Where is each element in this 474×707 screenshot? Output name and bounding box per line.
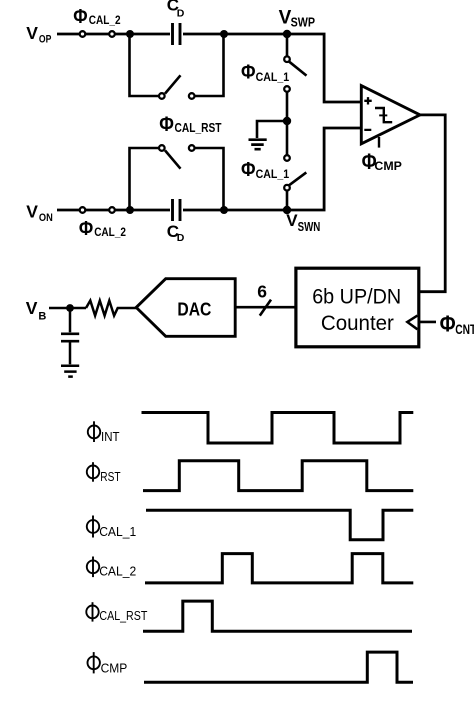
svg-text:CAL_1: CAL_1 (99, 524, 136, 539)
svg-text:V: V (26, 298, 38, 318)
svg-text:DAC: DAC (177, 298, 211, 319)
svg-text:CAL_1: CAL_1 (256, 167, 290, 181)
svg-text:V: V (286, 211, 298, 230)
svg-text:6: 6 (257, 282, 267, 302)
svg-text:SWP: SWP (291, 15, 316, 29)
svg-text:CAL_RST: CAL_RST (175, 121, 222, 135)
svg-text:V: V (26, 23, 38, 43)
svg-text:Φ: Φ (440, 311, 456, 337)
svg-text:Counter: Counter (321, 311, 394, 335)
svg-text:Φ: Φ (241, 158, 256, 181)
svg-text:ON: ON (39, 212, 53, 224)
svg-text:OP: OP (39, 34, 52, 46)
svg-text:6b UP/DN: 6b UP/DN (312, 285, 401, 309)
svg-text:CMP: CMP (374, 159, 402, 173)
svg-text:CAL_2: CAL_2 (99, 564, 136, 579)
svg-text:Φ: Φ (79, 217, 93, 240)
svg-text:SWN: SWN (298, 220, 321, 234)
svg-text:V: V (26, 202, 38, 222)
svg-text:CAL_1: CAL_1 (256, 70, 290, 84)
svg-text:D: D (177, 8, 185, 20)
svg-text:D: D (177, 232, 185, 244)
svg-text:CAL_RST: CAL_RST (99, 609, 147, 623)
svg-text:CAL_2: CAL_2 (94, 227, 126, 239)
svg-text:Φ: Φ (159, 113, 174, 136)
svg-text:CAL_2: CAL_2 (89, 15, 121, 27)
svg-text:Φ: Φ (73, 5, 87, 28)
svg-text:CNT: CNT (455, 322, 474, 337)
svg-text:RST: RST (100, 470, 121, 484)
svg-text:Φ: Φ (241, 60, 256, 83)
svg-text:CMP: CMP (101, 661, 128, 676)
svg-text:B: B (38, 310, 46, 322)
svg-text:INT: INT (101, 430, 120, 444)
